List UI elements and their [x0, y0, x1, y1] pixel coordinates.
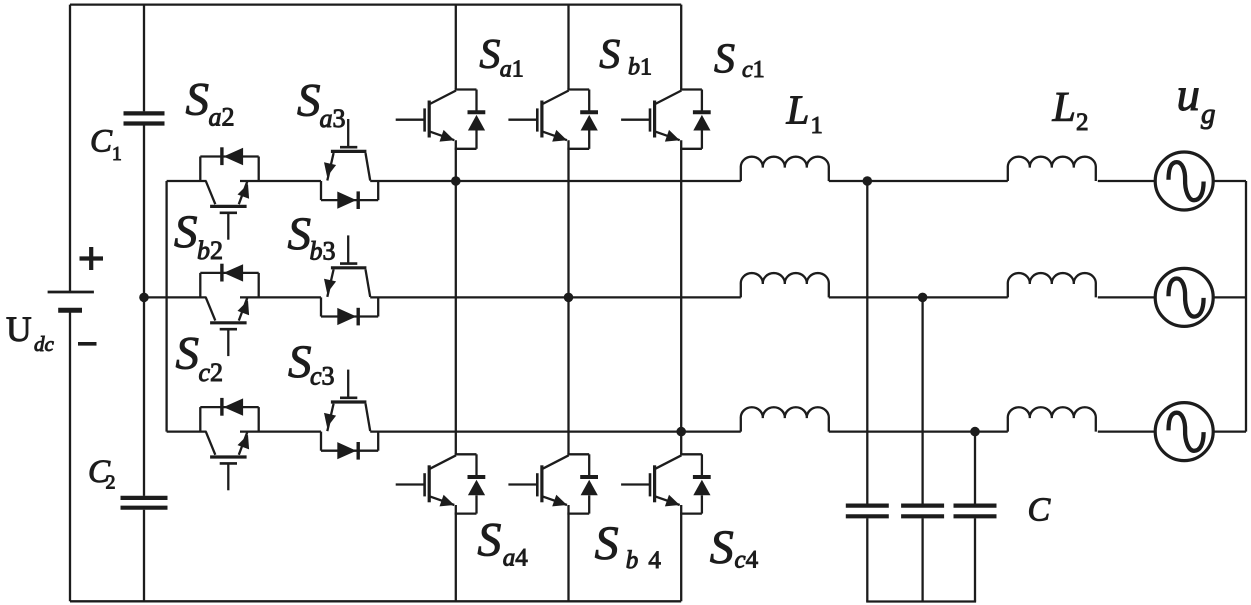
wire filter branch b	[921, 297, 923, 503]
label + polarity	[80, 247, 104, 270]
wire row c after L1	[829, 430, 1008, 432]
wire filter branch c	[974, 432, 976, 504]
capacitor C1	[124, 113, 165, 123]
wire row c to phase leg and L1	[370, 430, 741, 432]
wire leg b top	[567, 5, 569, 90]
label u_g	[1177, 69, 1216, 130]
label S_a2	[186, 74, 235, 132]
wire row b source to bus	[1213, 296, 1246, 298]
svg-text:dc: dc	[34, 332, 55, 356]
wire filter branch a	[866, 181, 868, 504]
svg-text:S: S	[595, 517, 619, 570]
svg-text:S: S	[297, 75, 321, 127]
wire leg c middle	[680, 140, 682, 454]
wire top DC+ rail	[70, 3, 681, 5]
svg-text:S: S	[479, 32, 500, 78]
ac source u_g phase a	[1155, 152, 1213, 210]
wire grid neutral bus	[1245, 181, 1247, 432]
wire row c from midpoint bus	[167, 430, 207, 432]
svg-text:b3: b3	[310, 237, 336, 266]
wire row a between Sa2 Sa3	[240, 180, 321, 182]
label S_a3	[297, 75, 346, 134]
transistor S_a2	[200, 147, 258, 239]
svg-text:a3: a3	[320, 104, 346, 133]
label S_c1	[714, 37, 765, 84]
svg-text:S: S	[174, 206, 198, 258]
transistor S_c4	[621, 454, 711, 513]
svg-text:2: 2	[1076, 109, 1089, 136]
svg-text:S: S	[176, 328, 200, 380]
node filter tap c	[970, 427, 980, 437]
wire filter branch a lower	[866, 518, 868, 601]
svg-text:S: S	[288, 208, 312, 260]
transistor S_b4	[508, 454, 598, 513]
svg-text:g: g	[1201, 98, 1216, 130]
label S_c2	[176, 328, 224, 388]
label C2	[88, 454, 116, 494]
capacitor C2	[121, 498, 168, 508]
label S_a4	[477, 514, 528, 572]
ac source u_g phase b	[1155, 268, 1213, 326]
wire row b after L1	[829, 296, 1008, 298]
svg-text:S: S	[186, 74, 210, 126]
transistor S_b2	[200, 264, 258, 356]
svg-text:c1: c1	[742, 57, 765, 83]
label - polarity	[78, 342, 97, 346]
transistor S_a3	[321, 119, 378, 209]
node phase b leg junction	[564, 293, 574, 303]
inductor L1 phase b	[741, 273, 829, 297]
label S_a1	[479, 32, 523, 82]
svg-text:S: S	[288, 336, 312, 388]
svg-text:a1: a1	[500, 56, 524, 82]
label S_c3	[288, 336, 335, 391]
svg-text:a4: a4	[503, 544, 529, 571]
wire DC-link bus middle	[143, 126, 145, 496]
node phase c leg junction	[676, 427, 686, 437]
capacitor C filter c	[954, 506, 997, 517]
wire leg c top	[680, 5, 682, 90]
battery U_dc	[48, 292, 94, 310]
svg-text:b2: b2	[197, 236, 223, 265]
wire leg b middle	[567, 140, 569, 454]
svg-text:2: 2	[106, 472, 116, 494]
inductor L1 phase a	[741, 157, 829, 181]
wire row c between Sc2 Sc3	[240, 430, 321, 432]
wire leg a middle	[455, 140, 457, 454]
wire filter branch c lower	[974, 518, 976, 601]
transistor S_c3	[321, 370, 378, 460]
svg-text:b1: b1	[628, 55, 652, 81]
svg-text:1: 1	[811, 112, 823, 139]
wire row b from midpoint	[144, 296, 207, 298]
wire filter branch b lower	[921, 518, 923, 601]
transistor S_a4	[396, 454, 486, 513]
svg-text:1: 1	[112, 144, 122, 165]
wire row a to phase leg and L1	[370, 180, 741, 182]
wire row a after L1	[829, 180, 1008, 182]
svg-text:U: U	[6, 309, 32, 349]
wire bottom DC- rail	[70, 600, 681, 602]
svg-text:c4: c4	[735, 547, 759, 574]
node filter tap b	[918, 293, 928, 303]
wire left branch lower	[69, 310, 71, 601]
svg-text:u: u	[1177, 69, 1201, 121]
transistor S_c1	[621, 90, 711, 149]
label C1	[90, 123, 122, 165]
svg-text:c2: c2	[199, 358, 224, 387]
svg-text:C: C	[1028, 492, 1051, 529]
inductor L1 phase c	[741, 407, 829, 431]
capacitor C filter a	[846, 506, 889, 517]
wire DC-link bus lower	[143, 510, 145, 602]
wire leg b bottom	[567, 505, 569, 601]
inductor L2 phase a	[1008, 157, 1096, 181]
label C filter	[1028, 492, 1051, 529]
transistor S_c2	[200, 398, 258, 490]
inductor L2 phase c	[1008, 407, 1096, 431]
ac source u_g phase c	[1155, 403, 1213, 461]
transistor S_b1	[508, 90, 598, 149]
svg-text:b 4: b 4	[626, 547, 662, 574]
label S_b3	[288, 208, 336, 266]
transistor S_b3	[321, 235, 378, 325]
transistor S_a1	[396, 90, 486, 149]
wire DC-link bus upper	[143, 5, 145, 112]
wire leg c bottom	[680, 505, 682, 601]
wire row b to source	[1098, 296, 1155, 298]
svg-text:S: S	[714, 37, 735, 83]
node M dc midpoint	[139, 293, 149, 303]
svg-text:S: S	[599, 32, 620, 78]
svg-text:C: C	[90, 123, 113, 159]
label S_b1	[599, 32, 652, 81]
label L2	[1052, 85, 1089, 136]
inductor L2 phase b	[1008, 273, 1096, 297]
wire row c to source	[1098, 430, 1155, 432]
svg-text:L: L	[786, 87, 810, 133]
wire row b between Sb2 Sb3	[240, 296, 321, 298]
svg-text:c3: c3	[310, 362, 335, 391]
svg-text:S: S	[477, 514, 501, 567]
label S_c4	[710, 521, 759, 574]
svg-text:L: L	[1052, 85, 1076, 131]
wire row a to source	[1098, 180, 1155, 182]
label U_dc	[6, 309, 55, 356]
wire leg a top	[455, 5, 457, 90]
wire row a from midpoint bus	[167, 180, 207, 182]
wire leg a bottom	[455, 505, 457, 601]
wire row a source to bus	[1213, 180, 1246, 182]
wire filter common bus	[866, 600, 976, 602]
svg-text:S: S	[710, 521, 734, 574]
node filter tap a	[863, 176, 873, 186]
wire row c source to bus	[1213, 430, 1246, 432]
capacitor C filter b	[901, 506, 944, 517]
wire midpoint bus	[165, 181, 167, 432]
wire left branch upper	[69, 5, 71, 291]
wire row b to phase leg and L1	[370, 296, 741, 298]
label L1	[786, 87, 823, 139]
svg-text:a2: a2	[209, 103, 235, 132]
label S_b4	[595, 517, 662, 574]
node phase a leg junction	[451, 176, 461, 186]
label S_b2	[174, 206, 223, 265]
